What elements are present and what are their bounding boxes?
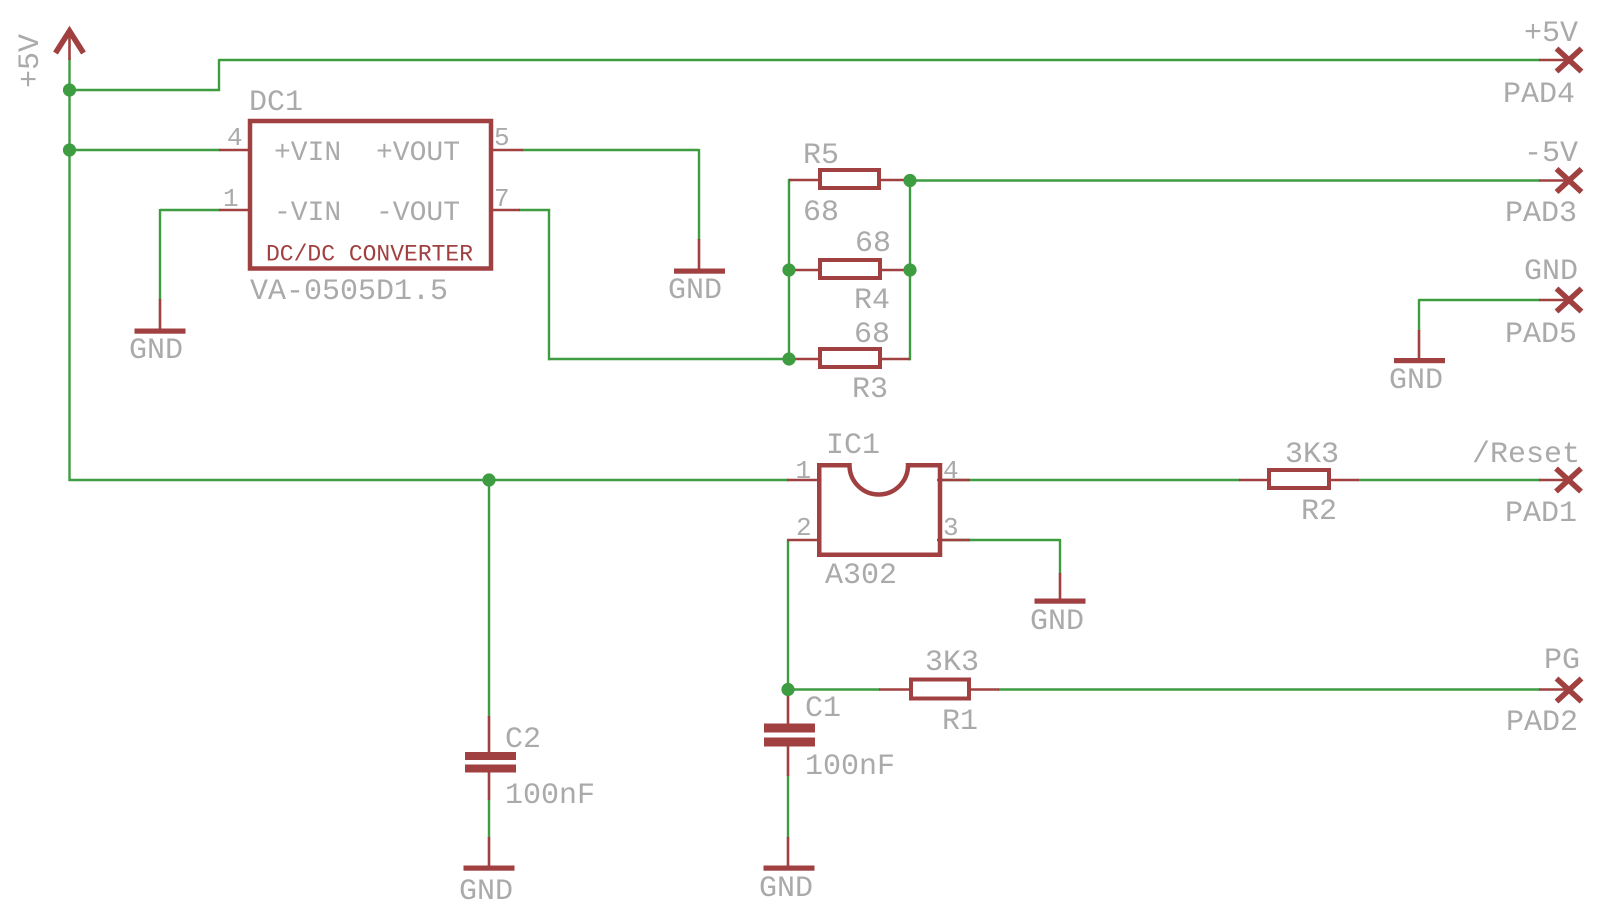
svg-text:GND: GND	[668, 274, 722, 308]
svg-text:GND: GND	[759, 872, 813, 906]
svg-text:R5: R5	[803, 139, 839, 173]
svg-text:C2: C2	[505, 723, 541, 757]
svg-text:100nF: 100nF	[505, 779, 595, 813]
svg-text:R1: R1	[942, 705, 978, 739]
svg-text:GND: GND	[459, 875, 513, 909]
svg-text:+5V: +5V	[1524, 17, 1578, 51]
svg-text:5: 5	[494, 123, 510, 153]
svg-text:GND: GND	[129, 334, 183, 368]
svg-text:3: 3	[943, 513, 959, 543]
svg-text:R2: R2	[1301, 495, 1337, 529]
svg-text:+VIN: +VIN	[274, 138, 341, 169]
svg-text:PG: PG	[1544, 644, 1580, 678]
svg-text:2: 2	[796, 513, 812, 543]
svg-text:3K3: 3K3	[925, 646, 979, 680]
svg-text:-VOUT: -VOUT	[376, 198, 460, 229]
svg-text:PAD3: PAD3	[1505, 197, 1577, 231]
svg-text:PAD2: PAD2	[1506, 706, 1578, 740]
svg-text:4: 4	[943, 456, 959, 486]
svg-text:3K3: 3K3	[1285, 438, 1339, 472]
svg-text:PAD5: PAD5	[1505, 318, 1577, 352]
svg-text:GND: GND	[1524, 255, 1578, 289]
svg-text:DC/DC CONVERTER: DC/DC CONVERTER	[266, 242, 473, 268]
svg-text:VA-0505D1.5: VA-0505D1.5	[250, 275, 448, 309]
svg-text:-5V: -5V	[1524, 137, 1578, 171]
svg-text:/Reset: /Reset	[1472, 438, 1580, 472]
svg-text:1: 1	[796, 456, 812, 486]
svg-text:IC1: IC1	[826, 429, 880, 463]
svg-text:-VIN: -VIN	[274, 198, 341, 229]
svg-text:R4: R4	[854, 284, 890, 318]
svg-text:68: 68	[854, 318, 890, 352]
svg-text:PAD4: PAD4	[1503, 78, 1575, 112]
svg-text:7: 7	[494, 184, 510, 214]
svg-text:68: 68	[803, 196, 839, 230]
svg-text:+VOUT: +VOUT	[376, 138, 460, 169]
svg-text:C1: C1	[805, 692, 841, 726]
svg-text:GND: GND	[1389, 364, 1443, 398]
svg-text:1: 1	[223, 184, 239, 214]
svg-text:R3: R3	[852, 373, 888, 407]
svg-text:DC1: DC1	[249, 86, 303, 120]
svg-text:100nF: 100nF	[805, 750, 895, 784]
svg-text:68: 68	[855, 227, 891, 261]
svg-text:GND: GND	[1030, 605, 1084, 639]
svg-text:+5V: +5V	[14, 34, 48, 88]
svg-text:A302: A302	[825, 559, 897, 593]
svg-text:4: 4	[227, 123, 243, 153]
svg-text:PAD1: PAD1	[1505, 497, 1577, 531]
